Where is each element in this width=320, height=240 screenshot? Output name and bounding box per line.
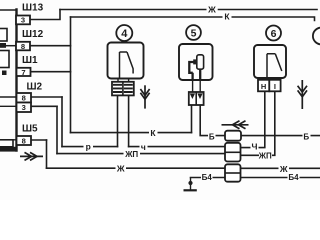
svg-text:Ж: Ж (279, 164, 288, 174)
svg-text:Ш13: Ш13 (22, 3, 44, 14)
inline connector block 1 (Б line) (225, 131, 241, 141)
wire: left edge entry at top (0, 9, 16, 11)
label К on mid line (149, 128, 158, 138)
wire: Р line to comp 4 left pin (62, 146, 118, 148)
svg-text:Ш5: Ш5 (22, 124, 38, 135)
label Б4 on Б4 line left (201, 173, 213, 182)
wire: switch 5 left pin drop (191, 105, 193, 133)
label Ж on Ж line right (279, 164, 290, 174)
svg-text:Ж: Ж (116, 164, 125, 174)
wire: ЖП vertical drop (56, 106, 58, 153)
wire: top horizontal Ж line (60, 9, 317, 11)
wire: Б4 line right of connector to right edge (241, 177, 320, 179)
wire: switch 5 right pin to Б line (200, 105, 225, 136)
component 6 box (switch) (254, 45, 286, 78)
wire: Б line right of connector to right edge (241, 135, 320, 137)
wire: К vertical drop from top line to mid К line (70, 17, 72, 133)
label р on Р line (84, 142, 94, 152)
component 6 circled number (266, 26, 281, 41)
component 4 box (switch) (108, 43, 144, 79)
component 5 circled number (186, 25, 201, 40)
svg-text:7: 7 (21, 68, 25, 77)
wire: ЖП line right of connector to comp 6 I pin (241, 91, 275, 155)
svg-text:Ч: Ч (252, 142, 258, 152)
wire: Ж line left of connector (47, 167, 226, 169)
svg-text:3: 3 (21, 16, 25, 25)
svg-text:ЖП: ЖП (258, 152, 272, 161)
svg-text:Ш2: Ш2 (27, 82, 43, 93)
inline connector block 2 (Ч / ЖП lines) (225, 143, 241, 162)
svg-text:Б: Б (209, 133, 215, 142)
connector Ш1 pin box (17, 68, 31, 77)
connector Ш2 pin boxes (17, 93, 32, 112)
arrow symbol: double chevron left (above connector, middle right) (222, 121, 249, 129)
label Ж on top line (207, 4, 218, 15)
svg-text:Б4: Б4 (202, 173, 213, 182)
wire: comp 4 left pin vertical (117, 96, 119, 147)
left edge cut symbol: rect near Ш5 (0, 140, 13, 147)
wire: Ш2 pin 3 wire (31, 105, 57, 107)
svg-text:ч: ч (141, 142, 146, 152)
svg-text:р: р (86, 142, 91, 152)
label Б4 on Б4 line right (288, 173, 300, 182)
label Ч on Ч line right (251, 142, 259, 152)
svg-text:8: 8 (22, 136, 26, 145)
wire: ЖП line left of connector (57, 153, 225, 155)
wire: top horizontal К line (71, 17, 315, 21)
wire: Ч line left of connector (129, 146, 225, 148)
label К on second line (223, 12, 232, 22)
inline connector block 3 (Ж / Б4 lines) (225, 164, 241, 181)
left edge cut symbol: black block bottom (0, 147, 16, 152)
svg-text:5: 5 (191, 27, 197, 39)
wire: comp 4 right pin vertical (128, 96, 130, 147)
svg-text:К: К (150, 128, 156, 138)
ground symbol (184, 178, 197, 191)
wire: Ж vertical drop (46, 140, 48, 168)
svg-text:Б: Б (303, 132, 309, 141)
label Ж on Ж line (116, 164, 127, 174)
component 5 box (sensor) (179, 44, 213, 80)
svg-text:4: 4 (121, 28, 128, 40)
wire: blob to bus (5, 45, 16, 47)
label ЖП on ЖП line right (258, 152, 272, 161)
wire: mid К line to lamp 5 (71, 132, 192, 134)
component 4 connector blocks (hatched) (112, 79, 134, 96)
wire: Б4 line from ground corner to connector (191, 177, 226, 179)
component 4 circled number (116, 25, 132, 41)
arrow symbol: double chevron down (right of comp 4) (140, 85, 149, 108)
svg-text:Н: Н (261, 82, 266, 91)
wire: Р vertical drop (61, 97, 63, 147)
left edge cut symbol: small rect top (0, 29, 7, 42)
label ч on Ч line (140, 142, 148, 152)
wire: Ш1 pin wire (31, 71, 71, 73)
svg-text:8: 8 (22, 94, 26, 103)
connector Ш5 pin box (17, 136, 32, 145)
wire: Ш2 pin 8 wire (31, 96, 62, 98)
left edge cut symbol: small black mark (2, 71, 7, 76)
component 5 connector blocks (chevron pins) (189, 80, 204, 105)
wire: Ш5 pin wire (31, 139, 47, 141)
component 6 pin blocks Н and I (258, 80, 281, 92)
svg-text:Ш1: Ш1 (22, 55, 38, 66)
wire: Ш12 pin wire (30, 45, 71, 47)
svg-text:3: 3 (22, 103, 26, 112)
label Б on Б line left (208, 133, 216, 142)
svg-text:8: 8 (21, 42, 25, 51)
arrow symbol: double chevron down (right of comp 6) (298, 80, 307, 109)
svg-text:Ш12: Ш12 (22, 29, 44, 40)
connector Ш12 pin box (16, 42, 30, 51)
wire: left entries to Ш2 (0, 97, 17, 106)
arrow symbol: double chevron right (bottom left) (20, 152, 43, 160)
wire: left entry to Ш5 (0, 139, 17, 141)
svg-text:ЖП: ЖП (124, 150, 138, 159)
svg-text:Ж: Ж (207, 5, 216, 15)
wire: Ж line right of connector to right edge (241, 167, 320, 169)
svg-text:К: К (224, 12, 230, 22)
label Б on Б line right (303, 132, 311, 141)
connector Ш13 pin box (16, 16, 30, 25)
svg-text:Б4: Б4 (288, 173, 299, 182)
label ЖП on ЖП line (124, 150, 141, 159)
component 7 circled number (cut off at edge) (313, 28, 320, 45)
svg-text:6: 6 (271, 28, 277, 40)
left edge cut symbol: rect 2 (0, 51, 9, 68)
wire: Ч line right of connector to comp 6 Н pin (241, 91, 265, 147)
wire: left vertical bus (15, 10, 17, 151)
left edge cut symbol: black block (0, 43, 6, 48)
svg-text:I: I (274, 82, 276, 91)
wire: Ш13 to top Ж line (30, 10, 61, 20)
